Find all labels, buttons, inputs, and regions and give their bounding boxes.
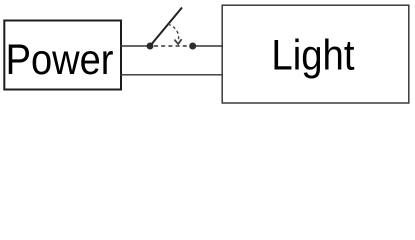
wire top: switch throw to Light	[193, 45, 223, 47]
switch S1 closed position (dashed contact line)	[154, 45, 189, 47]
wire top: Power to switch pole	[120, 45, 150, 47]
switch S1 actuation motion arc (dashed)	[168, 24, 179, 40]
switch S1 arrowhead	[174, 39, 181, 44]
switch S1 lever (open position)	[150, 8, 182, 47]
svg-text:Power: Power	[6, 36, 114, 84]
svg-text:Light: Light	[271, 31, 354, 79]
block Power (source box)	[4, 21, 121, 90]
wire bottom return: Light to Power	[120, 74, 223, 76]
switch S1 throw terminal dot	[189, 43, 196, 50]
block Light (load box)	[222, 5, 409, 103]
switch S1 pole terminal dot	[147, 43, 154, 50]
